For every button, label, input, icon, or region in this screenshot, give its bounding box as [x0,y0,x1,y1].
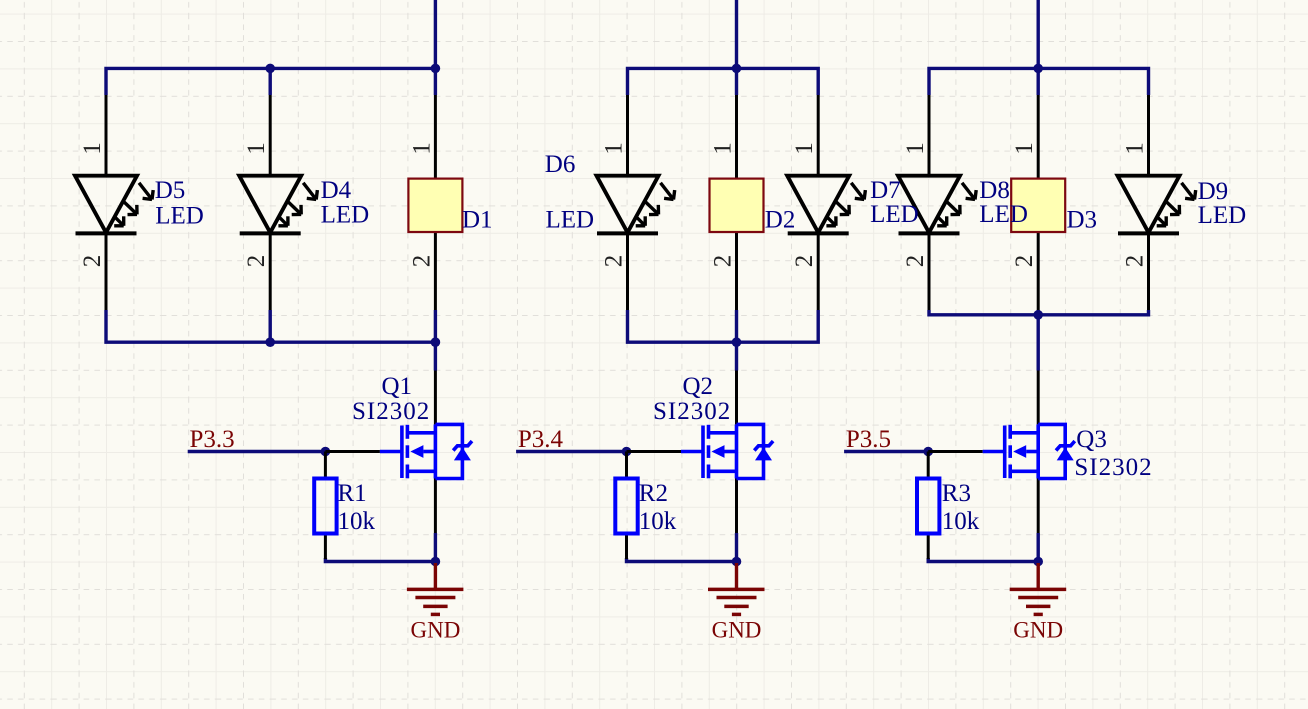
svg-text:SI2302: SI2302 [1074,454,1152,481]
svg-text:P3.3: P3.3 [190,426,235,453]
svg-text:1: 1 [902,142,929,155]
svg-text:2: 2 [1011,255,1038,268]
svg-text:2: 2 [243,255,270,268]
svg-text:10k: 10k [942,508,980,535]
svg-text:GND: GND [712,618,762,643]
svg-text:Q3: Q3 [1076,426,1107,453]
svg-text:D9: D9 [1198,178,1229,205]
svg-text:D7: D7 [870,177,901,204]
svg-text:D2: D2 [765,207,796,234]
svg-text:R1: R1 [338,480,367,507]
svg-text:D3: D3 [1067,207,1098,234]
svg-text:D6: D6 [545,151,576,178]
svg-text:LED: LED [546,206,595,233]
svg-text:P3.4: P3.4 [518,426,564,453]
svg-text:Q1: Q1 [382,373,413,400]
svg-text:2: 2 [408,255,435,268]
svg-text:2: 2 [601,255,628,268]
svg-text:1: 1 [601,142,628,155]
svg-text:2: 2 [710,255,737,268]
svg-text:SI2302: SI2302 [352,398,430,425]
svg-text:2: 2 [1122,255,1149,268]
svg-text:1: 1 [79,142,106,155]
svg-text:Q2: Q2 [683,373,714,400]
svg-text:1: 1 [243,142,270,155]
svg-text:LED: LED [321,202,370,229]
svg-text:2: 2 [791,255,818,268]
svg-text:LED: LED [1198,202,1247,229]
svg-text:10k: 10k [338,508,376,535]
svg-text:P3.5: P3.5 [846,426,891,453]
svg-text:R2: R2 [639,480,668,507]
svg-text:LED: LED [155,203,204,230]
svg-text:1: 1 [710,142,737,155]
svg-text:1: 1 [1122,142,1149,155]
svg-text:D1: D1 [462,207,493,234]
svg-text:GND: GND [1013,618,1063,643]
svg-text:1: 1 [408,142,435,155]
svg-text:10k: 10k [639,508,677,535]
svg-text:R3: R3 [942,480,971,507]
svg-text:LED: LED [870,201,919,228]
svg-text:GND: GND [410,618,460,643]
svg-text:1: 1 [1011,142,1038,155]
svg-text:2: 2 [902,255,929,268]
svg-text:D8: D8 [979,177,1010,204]
svg-text:1: 1 [791,142,818,155]
svg-text:LED: LED [979,201,1028,228]
svg-text:SI2302: SI2302 [653,398,731,425]
svg-text:D4: D4 [321,177,352,204]
svg-text:2: 2 [79,255,106,268]
svg-text:D5: D5 [155,177,186,204]
